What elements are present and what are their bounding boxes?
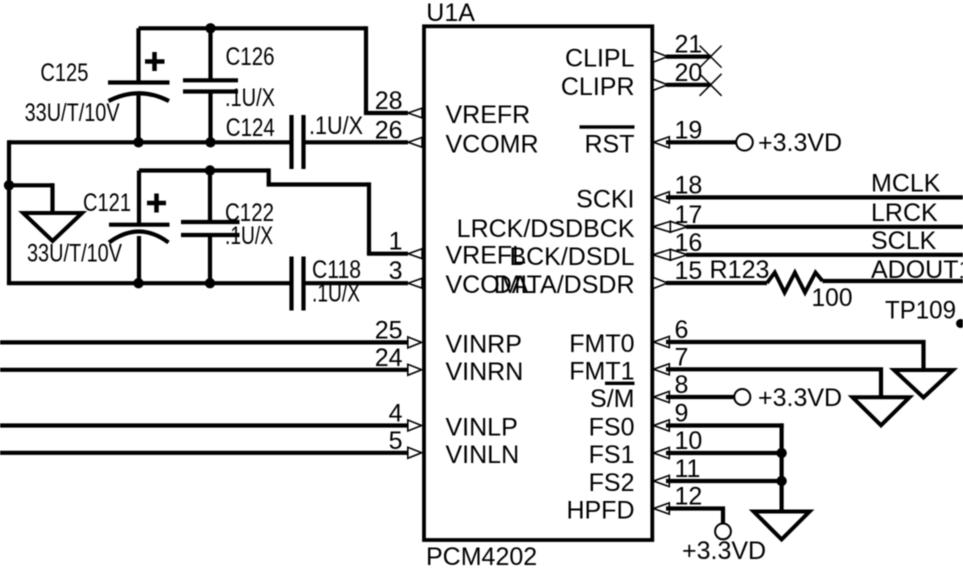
svg-text:ADOUT1: ADOUT1 (871, 256, 963, 284)
capacitor C122 upper plate (181, 220, 240, 224)
input arrowhead pin 25 VINRP (408, 337, 422, 348)
svg-text:6: 6 (675, 316, 689, 344)
wire ground branch vertical (50, 183, 54, 214)
svg-text:11: 11 (675, 455, 701, 483)
capacitor C125 top lead (136, 28, 140, 82)
pin number 26 (VCOMR) (375, 116, 403, 144)
svg-text:7: 7 (675, 343, 689, 371)
pin number 21 (CLIPL) (675, 31, 703, 59)
output arrowhead pin 1 VREFL (408, 249, 422, 259)
+3.3VD power circle at pin 12 (715, 524, 731, 540)
pin number 16 (BCK/DSDL) (675, 229, 703, 257)
svg-text:FS0: FS0 (589, 414, 635, 442)
junction dot C125 bottom on VCOMR wire (133, 137, 143, 147)
label net MCLK (871, 170, 941, 198)
capacitor C126 lower plate (183, 89, 238, 93)
pin name DATA/DSDR (pin 15) inside IC (494, 271, 635, 299)
svg-text:+3.3VD: +3.3VD (682, 537, 766, 565)
capacitor C118 right plate (301, 257, 305, 311)
pin name SCKI (pin 18) inside IC (576, 185, 634, 213)
pin number 15 (DATA/DSDR) (675, 257, 703, 285)
svg-text:.1U/X: .1U/X (225, 84, 275, 112)
pin name FMT1 (pin 7) inside IC (569, 357, 634, 385)
input arrowhead pin 9 FS0 (654, 420, 670, 431)
pin number 18 (SCKI) (675, 171, 703, 199)
pin name RST (pin 19) inside IC (585, 130, 635, 158)
wire pin 21 stub (666, 54, 711, 58)
svg-text:15: 15 (675, 257, 703, 285)
svg-text:VINLN: VINLN (446, 441, 520, 469)
input arrowhead pin 10 FS1 (654, 447, 670, 458)
wire net VREFR vertical drop to pin 28 row (364, 26, 368, 113)
svg-text:U1A: U1A (426, 0, 475, 27)
pin number 8 (S/M) (675, 371, 689, 399)
wire net VREFL into pin 1 (367, 252, 408, 256)
svg-text:VINRN: VINRN (446, 358, 524, 386)
svg-text:12: 12 (675, 483, 703, 511)
svg-text:8: 8 (675, 371, 689, 399)
input arrowhead pin 5 VINLN (408, 447, 422, 458)
label C118 (312, 256, 361, 284)
wire pin 26 VCOMR to C124 right plate (306, 140, 409, 144)
svg-text:DATA/DSDR: DATA/DSDR (494, 271, 635, 299)
pin name FS1 (pin 10) inside IC (589, 441, 635, 469)
svg-text:24: 24 (375, 344, 403, 372)
svg-text:VCOMR: VCOMR (446, 130, 539, 158)
svg-text:R123: R123 (710, 256, 770, 284)
capacitor C126 upper plate (183, 78, 238, 82)
wire C118 right plate to pin 3 VCOML (306, 281, 409, 285)
svg-text:4: 4 (389, 400, 403, 428)
no-connect X on pin 20 (700, 74, 722, 96)
svg-text:19: 19 (675, 116, 703, 144)
pin number 5 (VINLN) (389, 427, 403, 455)
wire pin 18 MCLK net (666, 195, 963, 199)
wire pin 6 FMT0 to ground (666, 342, 924, 371)
svg-text:C126: C126 (226, 43, 275, 71)
pin name VCOMR (pin 26) inside IC (446, 130, 539, 158)
label net SCLK (871, 227, 937, 255)
svg-text:FS2: FS2 (589, 469, 635, 497)
output arrowhead pin 20 CLIPR (653, 79, 668, 90)
svg-text:3: 3 (389, 257, 403, 285)
label C126 (226, 43, 275, 71)
wire resistor to ADOUT1 net (823, 279, 963, 283)
pin number 25 (VINRP) (375, 316, 403, 344)
overline for RST pin name (580, 125, 635, 128)
svg-text:.1U/X: .1U/X (225, 222, 273, 250)
output arrowhead pin 28 VREFR (408, 108, 422, 118)
wire pin 12 HPFD (666, 509, 723, 525)
svg-text:CLIPL: CLIPL (565, 45, 635, 73)
value .1U/X for C126 (225, 84, 275, 112)
ground symbol at FMT0 (894, 370, 953, 398)
label +3.3VD net at pin 12 (682, 537, 766, 565)
wire net VREFR into pin 28 (364, 111, 408, 115)
value 33U/T/10V for C125 (25, 99, 120, 127)
pin name VINLP (pin 4) inside IC (446, 414, 518, 442)
junction dot C122 bottom on VCOML rail (205, 278, 215, 288)
capacitor C124 left plate (289, 115, 293, 169)
capacitor C121 top lead (137, 171, 141, 225)
value 33U/T/10V for C121 (27, 240, 122, 268)
capacitor C121 bottom lead (137, 236, 141, 283)
label R123 (710, 256, 770, 284)
capacitor C126 bottom lead (208, 92, 212, 143)
svg-text:C125: C125 (40, 59, 88, 87)
wire net VREFL vertical drop to pin 1 row (367, 182, 371, 253)
pin name FS2 (pin 11) inside IC (589, 469, 635, 497)
label C122 (225, 199, 274, 227)
junction dot FS2 on vertical (776, 476, 786, 486)
svg-text:100: 100 (812, 284, 853, 312)
bidirectional arrowhead pin 17 (653, 221, 688, 232)
pin number 12 (HPFD) (675, 483, 703, 511)
wire ground branch horizontal (9, 183, 53, 187)
ground symbol at FMT1 (853, 397, 910, 425)
output arrowhead pin 26 VCOMR (408, 137, 422, 147)
wire net VREFR top rail C125/C126 to corner (139, 26, 367, 30)
wire pin 11 FS2 (666, 479, 784, 483)
svg-text:1: 1 (389, 228, 403, 256)
input arrowhead pin 19 RST (654, 137, 670, 148)
svg-text:33U/T/10V: 33U/T/10V (27, 240, 122, 268)
wire VINRN input (pin 24) (0, 368, 408, 372)
pin number 19 (RST) (675, 116, 703, 144)
capacitor C121 curved plate (109, 232, 169, 243)
svg-text:+3.3VD: +3.3VD (758, 129, 842, 157)
pin name VINRN (pin 24) inside IC (446, 358, 524, 386)
wire VINLN input (pin 5) (0, 451, 408, 455)
overline for S/M pin name (605, 382, 635, 385)
input arrowhead pin 8 S/M (654, 391, 670, 402)
label C125 (40, 59, 88, 87)
pin number 28 (VREFR) (375, 87, 403, 115)
svg-text:VINRP: VINRP (446, 330, 522, 358)
svg-text:C124: C124 (226, 114, 275, 142)
wire pin 19 to +3.3VD circle (666, 140, 736, 144)
svg-text:20: 20 (675, 59, 703, 87)
svg-text:21: 21 (675, 31, 703, 59)
svg-text:5: 5 (389, 427, 403, 455)
input arrowhead pin 24 VINRN (408, 364, 422, 375)
wire pin 7 FMT1 to ground (666, 369, 881, 398)
junction dot C126 bottom on VCOMR wire (205, 137, 215, 147)
capacitor C125 bottom lead (136, 94, 140, 142)
pin number 9 (FS0) (675, 400, 689, 428)
input arrowhead pin 11 FS2 (654, 475, 670, 486)
wire FS bus vertical to ground (779, 423, 783, 512)
svg-text:MCLK: MCLK (871, 170, 941, 198)
+3.3VD power circle at pin 8 (734, 389, 750, 405)
pin number 24 (VINRN) (375, 344, 403, 372)
pin number 7 (FMT1) (675, 343, 689, 371)
wire net VREFL top rail C121/C122 (139, 168, 269, 172)
junction dot FS1 on vertical (776, 448, 786, 458)
pin number 17 (LRCK/DSDBCK) (675, 201, 703, 229)
pin name BCK/DSDL (pin 16) inside IC (509, 243, 634, 271)
resistor R123 zigzag (767, 273, 823, 293)
output arrowhead pin 21 CLIPL (653, 51, 668, 62)
svg-text:FMT0: FMT0 (569, 330, 634, 358)
svg-text:PCM4202: PCM4202 (426, 543, 537, 570)
value 100 for R123 (812, 284, 853, 312)
wire pin 10 FS1 (666, 451, 784, 455)
svg-text:BCK/DSDL: BCK/DSDL (509, 243, 634, 271)
label C121 (83, 189, 131, 217)
capacitor C122 lower plate (181, 233, 240, 237)
IC U1A PCM4202 body outline (424, 26, 652, 540)
svg-text:S/M: S/M (590, 385, 634, 413)
wire VINRP input (pin 25) (0, 340, 408, 344)
svg-text:LRCK: LRCK (871, 199, 938, 227)
svg-text:26: 26 (375, 116, 403, 144)
svg-text:FMT1: FMT1 (569, 357, 634, 385)
pin number 1 (VREFL) (389, 228, 403, 256)
pin name VREFL (pin 1) inside IC (446, 242, 527, 270)
capacitor C125 flat plate (108, 80, 170, 84)
label testpoint TP109 (885, 297, 956, 325)
svg-text:SCKI: SCKI (576, 185, 634, 213)
label net ADOUT1 (871, 256, 963, 284)
svg-text:9: 9 (675, 400, 689, 428)
wire pin 20 stub (666, 83, 711, 87)
svg-text:VREFR: VREFR (446, 101, 531, 129)
pin name FS0 (pin 9) inside IC (589, 414, 635, 442)
no-connect X on pin 21 (700, 46, 722, 68)
wire left vertical VCOMR to VCOML rail (7, 140, 11, 283)
IC part number PCM4202 (426, 543, 537, 570)
pin number 3 (VCOML) (389, 257, 403, 285)
wire net VREFL step down (267, 168, 271, 184)
pin number 6 (FMT0) (675, 316, 689, 344)
+3.3VD power circle at pin 19 (736, 134, 753, 151)
junction dot ground tap on left vertical (4, 180, 14, 190)
pin name VINLN (pin 5) inside IC (446, 441, 520, 469)
wire pin 15 to resistor R123 (666, 281, 767, 285)
input arrowhead pin 18 SCKI (654, 192, 670, 203)
pin number 11 (FS2) (675, 455, 701, 483)
svg-text:TP109: TP109 (885, 297, 956, 325)
label +3.3VD net at pin 19 (758, 129, 842, 157)
testpoint TP109 dot (956, 319, 963, 328)
capacitor C125 curved plate (109, 93, 170, 101)
label C124 (226, 114, 275, 142)
wire pin 17 LRCK net (686, 225, 963, 229)
svg-text:FS1: FS1 (589, 441, 635, 469)
svg-text:C121: C121 (83, 189, 131, 217)
svg-text:10: 10 (675, 427, 703, 455)
pin name LRCK/DSDBCK (pin 17) inside IC (457, 215, 635, 243)
output arrowhead pin 15 DATA (653, 277, 668, 288)
junction dot C121 bottom on VCOML rail (133, 278, 143, 288)
capacitor C122 top lead (208, 171, 212, 223)
wire VCOML rail left edge to C118 left plate (7, 281, 290, 285)
IC reference designator U1A (426, 0, 475, 27)
wire pin 9 FS0 (666, 423, 784, 427)
input arrowhead pin 6 FMT0 (654, 336, 670, 347)
pin number 4 (VINLP) (389, 400, 403, 428)
junction dot C126 top on VREFR rail (205, 23, 215, 33)
pin name VINRP (pin 25) inside IC (446, 330, 522, 358)
svg-text:28: 28 (375, 87, 403, 115)
value .1U/X for C122 (225, 222, 273, 250)
capacitor C122 bottom lead (208, 235, 212, 283)
wire C124 left plate to left edge (9, 140, 290, 144)
capacitor C125 plus polarity mark (145, 52, 165, 71)
output arrowhead pin 3 VCOML (408, 278, 422, 288)
pin name CLIPR (pin 20) inside IC (561, 73, 635, 101)
wire net VREFL horizontal segment (267, 182, 369, 186)
label net LRCK (871, 199, 938, 227)
label +3.3VD net at pin 8 (758, 384, 842, 412)
capacitor C124 right plate (301, 115, 305, 169)
input arrowhead pin 4 VINLP (408, 420, 422, 431)
svg-text:HPFD: HPFD (566, 497, 634, 525)
value .1U/X for C124 (309, 112, 363, 140)
capacitor C121 plus polarity mark (147, 194, 166, 213)
wire VINLP input (pin 4) (0, 423, 408, 427)
ground symbol left of C121 (23, 213, 82, 241)
capacitor C126 top lead (208, 28, 212, 80)
wire pin 8 to +3.3VD circle (666, 395, 734, 399)
pin number 20 (CLIPR) (675, 59, 703, 87)
svg-text:RST: RST (585, 130, 635, 158)
pin name HPFD (pin 12) inside IC (566, 497, 634, 525)
svg-text:.1U/X: .1U/X (309, 112, 363, 140)
wire pin 16 SCLK net (686, 253, 963, 257)
pin name VCOML (pin 3) inside IC (446, 271, 535, 299)
junction dot C122 top on VREFL rail (205, 165, 215, 175)
svg-text:SCLK: SCLK (871, 227, 937, 255)
ground symbol at FS pins (754, 512, 810, 540)
pin number 10 (FS1) (675, 427, 703, 455)
svg-text:25: 25 (375, 316, 403, 344)
svg-text:18: 18 (675, 171, 703, 199)
pin name S/M (pin 8) inside IC (590, 385, 634, 413)
svg-text:VINLP: VINLP (446, 414, 518, 442)
capacitor C118 left plate (289, 257, 293, 311)
pin name CLIPL (pin 21) inside IC (565, 45, 635, 73)
svg-text:+3.3VD: +3.3VD (758, 384, 842, 412)
pin name FMT0 (pin 6) inside IC (569, 330, 634, 358)
pin name VREFR (pin 28) inside IC (446, 101, 531, 129)
capacitor C121 flat plate (109, 223, 170, 227)
input arrowhead pin 12 HPFD (654, 503, 670, 514)
input arrowhead pin 7 FMT1 (654, 364, 670, 375)
value .1U/X for C118 (312, 280, 360, 308)
bidirectional arrowhead pin 16 (653, 249, 688, 260)
svg-text:CLIPR: CLIPR (561, 73, 635, 101)
svg-text:33U/T/10V: 33U/T/10V (25, 99, 120, 127)
svg-text:LRCK/DSDBCK: LRCK/DSDBCK (457, 215, 635, 243)
